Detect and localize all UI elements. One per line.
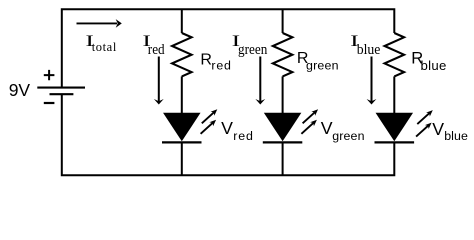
wire LED green to bottom bbox=[282, 144, 284, 176]
svg-text:V: V bbox=[432, 119, 444, 139]
I_red current arrow bbox=[158, 57, 160, 102]
svg-text:red: red bbox=[148, 41, 165, 57]
LED D_green triangle bbox=[264, 113, 302, 142]
LED D_blue cathode bar bbox=[375, 141, 415, 143]
wire branch green top bbox=[282, 9, 284, 33]
battery B1 negative plate bbox=[50, 93, 74, 95]
wire resistor to LED blue bbox=[393, 76, 395, 114]
svg-text:9V: 9V bbox=[9, 80, 31, 100]
resistor R_green bbox=[273, 33, 293, 76]
I_total arrow bbox=[77, 22, 118, 24]
I_blue current arrow bbox=[371, 57, 373, 102]
resistor R_blue bbox=[385, 33, 405, 76]
wire bottom rail bbox=[62, 94, 395, 175]
LED D_green cathode bar bbox=[263, 141, 303, 143]
LED blue light arrow upper bbox=[417, 113, 430, 125]
resistor R_red bbox=[172, 33, 192, 76]
wire resistor to LED red bbox=[181, 76, 183, 114]
battery B1 positive plate bbox=[37, 87, 85, 89]
svg-text:R: R bbox=[200, 51, 212, 68]
LED red light arrow upper bbox=[202, 112, 215, 124]
I_green current arrow bbox=[259, 57, 261, 102]
svg-text:green: green bbox=[306, 58, 339, 72]
svg-text:blue: blue bbox=[444, 129, 468, 143]
svg-text:blue: blue bbox=[357, 43, 381, 58]
LED D_blue triangle bbox=[376, 113, 414, 142]
LED D_red triangle bbox=[163, 113, 201, 142]
svg-text:red: red bbox=[233, 129, 254, 143]
wire LED red to bottom bbox=[181, 144, 183, 176]
svg-text:V: V bbox=[221, 118, 233, 138]
battery plus sign bbox=[44, 70, 55, 80]
svg-text:V: V bbox=[321, 118, 333, 138]
svg-text:green: green bbox=[238, 41, 267, 57]
LED blue light arrow lower bbox=[416, 125, 429, 137]
wire top rail bbox=[62, 9, 395, 87]
wire branch red top bbox=[181, 9, 183, 33]
wire resistor to LED green bbox=[282, 76, 284, 114]
LED red light arrow lower bbox=[201, 122, 214, 134]
LED green light arrow lower bbox=[301, 122, 314, 134]
svg-text:red: red bbox=[211, 59, 231, 73]
battery minus sign bbox=[44, 102, 55, 104]
svg-text:green: green bbox=[332, 129, 364, 143]
svg-text:total: total bbox=[92, 40, 117, 54]
LED D_red cathode bar bbox=[162, 141, 202, 143]
svg-text:blue: blue bbox=[421, 58, 447, 73]
LED green light arrow upper bbox=[303, 112, 316, 124]
